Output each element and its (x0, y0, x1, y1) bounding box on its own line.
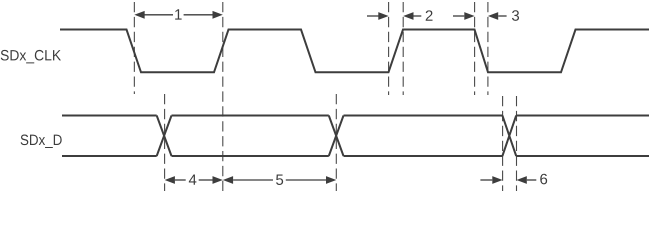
dimension 4 arrow (data setup time) (165, 176, 175, 184)
dimension 2 value label (426, 10, 433, 20)
wire dashed guide I (data transition X3 start) (502, 96, 504, 191)
wire SDx_CLK waveform (60, 30, 649, 73)
dimension 3 value label (512, 10, 519, 21)
wire dashed guide E (clock falling edge 3 start) (474, 2, 476, 95)
node data transition X3 (502, 116, 516, 157)
dimension 1 arrow (clock low pulse width) (134, 11, 144, 19)
node data transition X2 (329, 116, 344, 157)
wire SDx_D high rail (62, 115, 649, 117)
wire dashed guide A (clock falling edge 1 mid) (133, 2, 135, 94)
dimension 3 arrow (clock fall time) (453, 15, 464, 17)
dimension 5 value label (276, 174, 283, 184)
dimension 1 value label (175, 9, 181, 19)
dimension 6 arrow (data transition time) (480, 179, 492, 181)
dimension 4 value label (189, 174, 197, 184)
dimension 6 value label (540, 174, 547, 185)
wire dashed guide C (clock rising edge 2 start) (388, 2, 390, 95)
wire dashed guide F (clock falling edge 3 end) (487, 2, 489, 95)
node data transition X1 (157, 116, 172, 157)
node SDx_CLK signal label (1, 50, 61, 63)
wire dashed guide H (data transition X2 center) (335, 94, 337, 191)
node SDx_D signal label (21, 135, 62, 148)
dimension 2 arrow (clock rise time) (367, 15, 379, 17)
wire dashed guide J (data transition X3 end) (516, 96, 518, 191)
wire dashed guide G (data transition X1 center) (164, 94, 166, 191)
wire dashed guide D (clock rising edge 2 end) (402, 2, 404, 95)
wire SDx_D low rail (62, 155, 649, 157)
wire dashed guide B (clock rising edge 1 mid, shared dim 1/4/5) (222, 2, 224, 191)
dimension 5 arrow (data hold time) (223, 176, 233, 184)
